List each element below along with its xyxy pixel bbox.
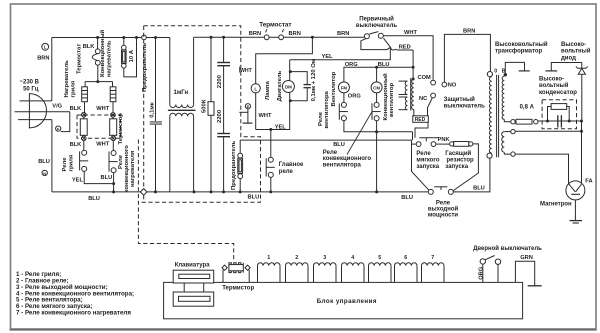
- svg-text:7: 7: [431, 255, 434, 261]
- soft start relay contact K6: [416, 142, 421, 147]
- svg-text:диод: диод: [561, 55, 576, 61]
- wire top bus mid: [194, 36, 265, 38]
- node HV line junction: [580, 120, 583, 123]
- svg-text:3: 3: [323, 255, 326, 261]
- wire lower bus y140: [240, 139, 411, 141]
- wire C1 down: [155, 125, 157, 192]
- svg-text:Предохранитель: Предохранитель: [142, 42, 148, 92]
- wire thermostat to heater split: [97, 65, 99, 81]
- node N indicator: [42, 170, 47, 175]
- svg-text:ORG: ORG: [348, 94, 362, 100]
- node E terminal: [245, 104, 250, 109]
- svg-text:RED: RED: [415, 117, 426, 123]
- svg-text:Блок управления: Блок управления: [317, 298, 377, 305]
- wire NO up BRN: [444, 34, 490, 82]
- chassis ground secondary: [505, 62, 524, 74]
- pointer line: [347, 113, 372, 155]
- choke L1 core: [168, 109, 196, 111]
- svg-text:мягкого: мягкого: [416, 157, 439, 163]
- svg-text:CM: CM: [373, 85, 380, 90]
- svg-text:гриля: гриля: [69, 154, 75, 171]
- svg-text:BLU: BLU: [401, 195, 413, 201]
- wire YEL upper bus: [290, 48, 391, 60]
- relay coil 1: [257, 266, 259, 283]
- capacitor C2 2200pF: [217, 62, 230, 64]
- svg-text:выключатель: выключатель: [356, 23, 398, 29]
- svg-text:N: N: [43, 171, 46, 176]
- HV transformer core: [496, 75, 498, 158]
- svg-text:BRN: BRN: [249, 31, 261, 37]
- wire fuse stub: [123, 38, 125, 46]
- svg-text:BLU: BLU: [88, 196, 100, 202]
- output power relay contact K3: [428, 189, 433, 194]
- svg-text:2200: 2200: [217, 74, 223, 88]
- wire FM to contact: [343, 93, 345, 103]
- svg-text:BRN: BRN: [289, 31, 301, 37]
- svg-text:BLK: BLK: [83, 44, 96, 50]
- svg-text:запуска: запуска: [416, 164, 439, 170]
- wire X4 to conv heater relay: [112, 141, 114, 151]
- wire thermostat gap: [269, 36, 279, 38]
- svg-text:Термистор: Термистор: [222, 285, 254, 291]
- svg-text:Высоко-: Высоко-: [539, 76, 564, 82]
- HV transformer primary bottom terminal: [487, 153, 492, 158]
- svg-text:BLU: BLU: [333, 142, 345, 148]
- thermistor dashed box: [77, 115, 121, 138]
- wire X2 to RT2: [112, 117, 114, 119]
- HV filament winding: [504, 131, 513, 133]
- svg-text:GRN: GRN: [520, 255, 533, 261]
- wire earth: [61, 112, 70, 132]
- svg-text:вентилятора: вентилятора: [324, 90, 330, 128]
- svg-text:L: L: [44, 45, 47, 50]
- GRN ground: [528, 285, 542, 287]
- svg-text:BLK: BLK: [70, 142, 83, 148]
- wire door switch leads: [482, 264, 484, 282]
- svg-text:Дверной выключатель: Дверной выключатель: [473, 245, 542, 252]
- svg-text:реле: реле: [279, 169, 294, 175]
- svg-text:Конвекционный: Конвекционный: [99, 29, 106, 77]
- svg-text:1мГн: 1мГн: [174, 90, 189, 96]
- svg-text:DM: DM: [285, 85, 292, 90]
- node L indicator: [42, 43, 49, 50]
- chassis ground diode: [551, 63, 582, 71]
- thermostat TH1: [264, 35, 269, 40]
- border frame bottom edge: [10, 329, 597, 331]
- relay coil 7: [421, 266, 423, 283]
- shield feedthrough diamond: [140, 189, 147, 196]
- node C3 bus junction: [222, 190, 225, 193]
- wire top bus right: [284, 36, 365, 38]
- wire filament bottom to magnetron: [515, 154, 568, 184]
- svg-text:выключатель: выключатель: [444, 104, 486, 110]
- convection heater relay contact K7: [111, 151, 116, 156]
- svg-text:1: 1: [267, 255, 270, 261]
- wire neutral down: [51, 120, 53, 192]
- svg-text:Магнетрон: Магнетрон: [540, 201, 572, 207]
- wire to convection heater: [112, 82, 114, 87]
- svg-text:резистор: резистор: [447, 157, 475, 163]
- resistor R1 500K: [210, 37, 212, 101]
- svg-text:нагревателя: нагревателя: [130, 150, 136, 187]
- svg-text:Термостат: Термостат: [259, 22, 291, 29]
- wire filament top to HV: [515, 130, 581, 132]
- svg-text:Термистор: Термистор: [118, 113, 124, 145]
- wire conv heater relay down: [113, 173, 115, 192]
- primary switch actuator: [361, 38, 391, 49]
- node cap C1 top junction: [154, 36, 157, 39]
- svg-text:Реле: Реле: [318, 111, 324, 126]
- svg-text:NC: NC: [419, 96, 427, 102]
- node choke bus junction: [193, 190, 196, 193]
- svg-text:гриля: гриля: [71, 80, 77, 97]
- convection fan relay contact K4: [374, 102, 379, 107]
- wire phase up: [51, 38, 53, 101]
- safety switch COM terminal: [431, 80, 436, 85]
- svg-text:2200: 2200: [217, 109, 223, 123]
- fuse F2: [238, 153, 243, 158]
- svg-text:BLU: BLU: [101, 175, 113, 181]
- conv motor winding left: [399, 80, 408, 82]
- node snubber bottom junction: [289, 99, 292, 102]
- main relay contact K2: [268, 157, 273, 162]
- thermistor RT3: [229, 265, 243, 271]
- damping resistor R2: [450, 142, 454, 146]
- node lamp branch junction: [311, 36, 314, 39]
- connector X4: [111, 136, 116, 141]
- svg-text:Двигатель: Двигатель: [277, 70, 283, 101]
- svg-text:конденсатор: конденсатор: [539, 90, 577, 96]
- svg-text:YEL: YEL: [72, 177, 84, 183]
- node main relay top junction: [269, 128, 272, 131]
- svg-text:Вентилятор: Вентилятор: [331, 71, 337, 106]
- oven motor DM: [282, 81, 294, 93]
- svg-text:BRN: BRN: [463, 29, 475, 35]
- wire WHT: [383, 36, 433, 80]
- svg-text:0: 0: [494, 69, 497, 75]
- wire bus link: [412, 132, 414, 140]
- svg-text:Клавиатура: Клавиатура: [175, 263, 211, 269]
- wire to transformer primary: [453, 158, 490, 192]
- svg-text:RED: RED: [399, 44, 411, 50]
- grill relay contact K1: [82, 150, 87, 155]
- node CM contact bus junction: [375, 130, 378, 133]
- svg-text:FA: FA: [585, 178, 592, 184]
- node F earth terminal: [56, 126, 61, 131]
- wire HV node: [538, 120, 582, 122]
- wire main relay down: [270, 178, 272, 192]
- svg-text:WHT: WHT: [259, 113, 272, 119]
- svg-text:BRN: BRN: [337, 31, 349, 37]
- magnetron MG1: [566, 181, 585, 200]
- svg-text:Защитный: Защитный: [444, 96, 476, 103]
- svg-text:вентилятор: вентилятор: [389, 83, 395, 117]
- svg-text:WHT: WHT: [96, 142, 109, 148]
- thermistor RT2: [110, 119, 117, 136]
- svg-text:вентилятора: вентилятора: [323, 162, 362, 168]
- wire fuse bypass: [124, 38, 137, 77]
- svg-text:BLU: BLU: [248, 195, 260, 201]
- RED label box: [413, 116, 429, 123]
- wire damping resistor right: [453, 144, 478, 191]
- svg-text:BLU: BLU: [38, 159, 50, 165]
- filament terminal bottom: [511, 152, 515, 156]
- mains plug P1: [29, 94, 46, 128]
- svg-text:COM: COM: [418, 75, 432, 81]
- wire heater split bar: [85, 81, 112, 83]
- HV capacitor C4: [557, 115, 559, 127]
- svg-text:50 Гц: 50 Гц: [23, 86, 39, 92]
- connector bus terminal: [142, 35, 147, 40]
- svg-text:Конвекционный: Конвекционный: [382, 73, 389, 121]
- node bleeder left junction: [546, 120, 549, 123]
- svg-text:конвекционного: конвекционного: [323, 156, 372, 162]
- fan relay contact K5: [341, 102, 346, 107]
- svg-text:2: 2: [295, 255, 298, 261]
- node CM bus junction: [375, 190, 378, 193]
- wire lamp down: [255, 93, 257, 130]
- svg-text:Лампа: Лампа: [265, 81, 271, 100]
- node C1 bus junction: [154, 190, 157, 193]
- wire main relay stub: [270, 130, 272, 158]
- wire top bus left: [52, 37, 170, 39]
- svg-text:4: 4: [351, 255, 354, 261]
- node snubber top junction: [289, 70, 292, 73]
- wire CM to contact: [376, 93, 378, 103]
- choke L1 bottom winding: [170, 113, 194, 116]
- convection heater R-conv: [110, 87, 116, 102]
- magnetron antenna ground: [574, 200, 576, 220]
- HV fuse F3 0.8A: [511, 120, 515, 124]
- keyboard lower box: [173, 292, 214, 306]
- svg-text:Термостат: Термостат: [77, 44, 83, 74]
- connector X2: [111, 113, 116, 118]
- wire convection heater down: [112, 102, 114, 113]
- svg-text:500К: 500К: [202, 99, 208, 113]
- grill heater R-grill: [82, 87, 88, 102]
- node red-blu junction: [412, 66, 415, 69]
- wire CM feed: [376, 67, 378, 82]
- keyboard lower slot: [179, 296, 211, 301]
- svg-text:Высоко-: Высоко-: [561, 42, 586, 48]
- control unit box: [164, 282, 523, 318]
- wire lamp feed: [256, 37, 313, 83]
- primary switch S1: [364, 34, 369, 39]
- soft start contact bar: [419, 137, 438, 139]
- svg-text:трансформатор: трансформатор: [495, 48, 543, 55]
- node fuse top junction: [122, 36, 125, 39]
- capacitor C3 2200pF: [217, 133, 230, 135]
- wire fan contact to bus: [344, 121, 413, 132]
- node fuse bypass junction: [135, 36, 138, 39]
- svg-text:WHT: WHT: [96, 106, 109, 112]
- wire HV line down: [581, 121, 583, 184]
- safety switch NO terminal: [442, 82, 447, 87]
- fuse F1 10A: [122, 45, 127, 50]
- capacitor C1 0.1uF: [150, 121, 162, 123]
- conv motor core: [410, 78, 412, 110]
- connector X3: [82, 136, 87, 141]
- wire RT1 down: [83, 135, 85, 136]
- wire motor up: [289, 60, 291, 81]
- wire RT2 down: [112, 135, 114, 136]
- wire BLU bus: [52, 191, 429, 193]
- choke L1 top winding: [169, 38, 171, 105]
- svg-text:NO: NO: [448, 83, 457, 89]
- svg-text:Предохранитель: Предохранитель: [231, 140, 237, 190]
- svg-text:Реле: Реле: [62, 157, 68, 172]
- conv motor winding right: [412, 78, 415, 80]
- node R1 bus junction: [210, 190, 213, 193]
- wire YEL: [256, 93, 290, 130]
- wire fuse2 stub: [239, 140, 241, 153]
- node main relay bus junction: [269, 190, 272, 193]
- thermistor RT3 leads: [222, 270, 224, 283]
- svg-text:Реле: Реле: [118, 154, 124, 169]
- wire soft start diagonal: [412, 140, 429, 190]
- node red-transformer junction: [412, 78, 415, 81]
- svg-text:BLU: BLU: [473, 185, 485, 191]
- wire winding to RED box: [413, 110, 415, 116]
- relay coil 3: [313, 266, 315, 283]
- svg-text:0,1мк: 0,1мк: [149, 102, 155, 118]
- svg-text:ORG: ORG: [479, 266, 485, 280]
- node heater split: [96, 80, 99, 83]
- safety switch lever: [428, 98, 433, 116]
- HV secondary winding: [502, 76, 504, 119]
- relay coil 5: [368, 266, 370, 283]
- svg-text:L: L: [254, 86, 257, 91]
- snubber R+C 0.1uF 120ohm: [290, 72, 307, 85]
- wire C2 to C3: [223, 66, 225, 133]
- node junction grill branch: [96, 36, 99, 39]
- wire ORG-BLU bus: [344, 67, 413, 82]
- svg-text:0,1мк + 120 Ом: 0,1мк + 120 Ом: [311, 59, 317, 102]
- wire fuse2 down: [239, 179, 241, 192]
- wire secondary to fuse: [504, 119, 511, 121]
- safety switch NC terminal: [431, 93, 436, 98]
- dashed link to thermistor bottom: [138, 140, 233, 261]
- node R1 top junction: [210, 36, 213, 39]
- wire RED box to contact bar: [415, 122, 428, 138]
- svg-text:E: E: [247, 104, 250, 109]
- wire grill heater down: [84, 102, 86, 113]
- node yel-blu junction: [112, 182, 115, 185]
- svg-text:7 - Реле конвекционного нагрев: 7 - Реле конвекционного нагревателя: [16, 310, 131, 317]
- svg-text:Первичный: Первичный: [359, 16, 394, 23]
- filament terminal top: [511, 129, 515, 133]
- wire bleeder right: [567, 107, 570, 122]
- earth ground lamp: [247, 109, 249, 123]
- relay coil 6: [394, 266, 396, 283]
- HV capacitor dashed box: [542, 100, 576, 129]
- keyboard upper slot: [179, 274, 210, 278]
- svg-text:Нагреватель: Нагреватель: [64, 60, 70, 98]
- wire C2 vertical: [223, 37, 225, 62]
- wire bleeder left: [548, 107, 552, 122]
- HV secondary top junction: [504, 73, 507, 76]
- svg-text:мощности: мощности: [428, 213, 459, 219]
- wire C1 vertical: [155, 38, 157, 122]
- relay coil 2: [285, 266, 287, 283]
- svg-text:Реле: Реле: [416, 151, 431, 157]
- door switch S2: [480, 259, 485, 264]
- svg-text:BLK: BLK: [70, 106, 83, 112]
- svg-text:FM: FM: [341, 85, 348, 90]
- svg-text:вольтный: вольтный: [561, 48, 591, 55]
- keyboard upper box: [173, 270, 214, 283]
- bleeder resistor R3: [551, 104, 567, 110]
- svg-text:запуска: запуска: [445, 164, 468, 170]
- svg-text:PNK: PNK: [438, 137, 451, 143]
- GRN ground wire: [515, 261, 534, 286]
- svg-text:YEL: YEL: [322, 54, 334, 60]
- svg-text:V/G: V/G: [52, 104, 62, 110]
- svg-text:0,8 А: 0,8 А: [520, 104, 535, 110]
- relay coil 4: [341, 266, 343, 283]
- node bleeder right junction: [568, 120, 571, 123]
- svg-text:нагреватель: нагреватель: [107, 40, 113, 77]
- thermostat TH2: [95, 49, 100, 54]
- svg-text:Гасящий: Гасящий: [445, 150, 471, 157]
- svg-text:10 А: 10 А: [129, 49, 135, 62]
- convection fan motor CM: [371, 82, 382, 93]
- HV transformer primary winding: [489, 77, 491, 153]
- svg-text:BRN: BRN: [37, 56, 49, 62]
- wire to thermostat TH2: [97, 38, 99, 49]
- connector X1: [82, 112, 87, 117]
- wire CM contact down: [376, 121, 378, 192]
- wire grill relay to yel bus: [84, 172, 113, 184]
- svg-text:WHT: WHT: [240, 68, 253, 74]
- wire to damping resistor: [436, 143, 450, 145]
- svg-text:Главное: Главное: [279, 162, 304, 168]
- thermistor RT1: [80, 119, 87, 136]
- svg-text:вольтный: вольтный: [539, 82, 569, 89]
- wire C3 down: [223, 137, 225, 192]
- svg-text:~230 В: ~230 В: [19, 80, 39, 86]
- EMI filter shield dashed box: [138, 26, 260, 203]
- wire RED down: [412, 50, 414, 79]
- fan motor FM: [338, 82, 349, 93]
- node conv relay bus junction: [112, 190, 115, 193]
- svg-text:Реле: Реле: [323, 150, 338, 156]
- HV diode D1: [581, 63, 583, 69]
- wire to grill heater: [84, 82, 86, 87]
- wire X3 to grill relay: [83, 141, 85, 151]
- wire X1 to RT1: [83, 117, 85, 119]
- node C2 top junction: [222, 36, 225, 39]
- svg-text:выходной: выходной: [428, 205, 459, 212]
- wire soft start left: [412, 143, 417, 145]
- HV transformer primary top terminal: [487, 72, 492, 77]
- svg-text:Высоковольтный: Высоковольтный: [495, 41, 548, 48]
- wire E stub: [239, 111, 248, 113]
- lamp LA1: [251, 84, 260, 93]
- node CM feed junction: [375, 66, 378, 69]
- node filament HV junction: [580, 130, 583, 133]
- keyboard links: [183, 283, 185, 292]
- svg-text:6: 6: [404, 255, 407, 261]
- svg-text:5: 5: [378, 255, 381, 261]
- node fuse2 bus junction: [239, 190, 242, 193]
